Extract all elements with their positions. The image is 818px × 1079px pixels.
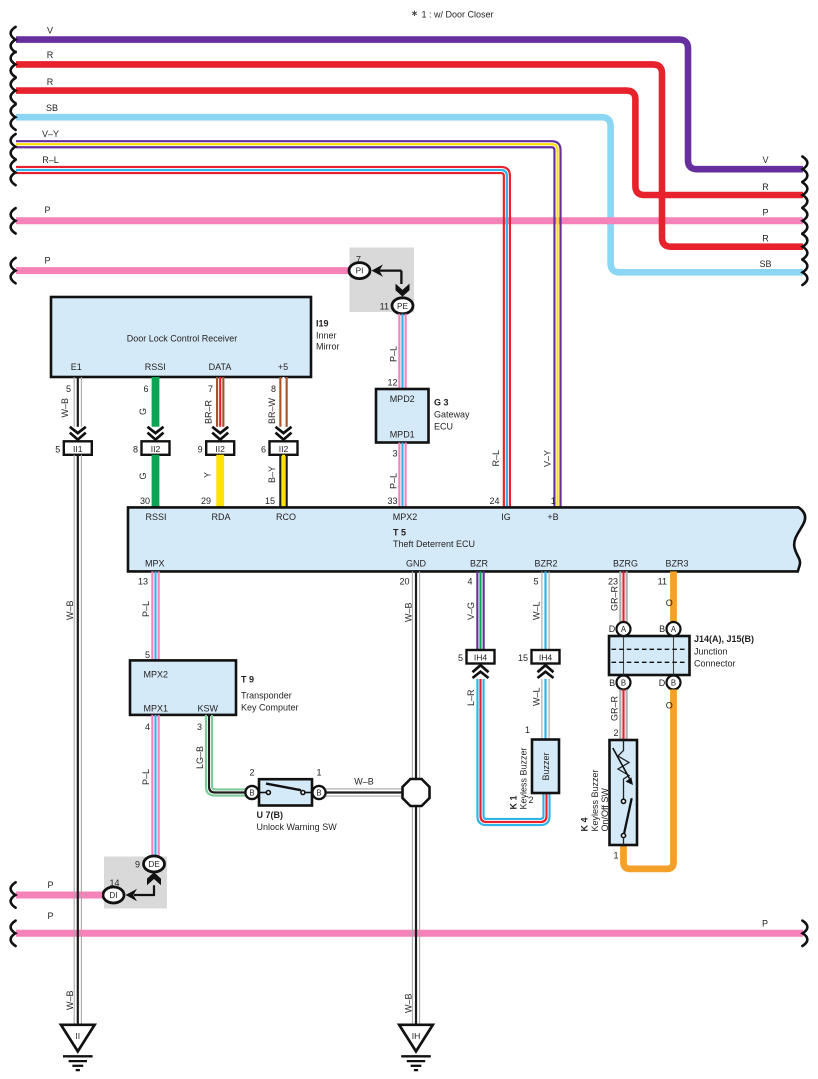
svg-text:5: 5 — [145, 650, 150, 660]
svg-text:11: 11 — [380, 302, 389, 312]
svg-text:II2: II2 — [151, 444, 161, 454]
svg-text:13: 13 — [138, 576, 148, 586]
svg-text:GR–R: GR–R — [609, 585, 619, 611]
wire V (violet) feeder with wire-break braces — [11, 25, 808, 182]
note: footnote w/ Door Closer — [412, 10, 493, 20]
wire P (pink) to connector DI — [11, 880, 102, 908]
svg-text:R: R — [762, 234, 769, 244]
switch K4 Keyless Buzzer On/Off SW — [580, 740, 638, 861]
svg-text:R: R — [47, 50, 54, 60]
wire P (pink) to connector PI — [11, 255, 350, 283]
svg-text:MPX2: MPX2 — [393, 512, 418, 522]
svg-text:P: P — [762, 208, 768, 218]
svg-text:T 9: T 9 — [241, 675, 254, 685]
wire W–L from T5 pin 5 (BZR2) to connector IH4 — [532, 571, 550, 650]
wire R (red) feeder 1 with braces — [11, 50, 808, 259]
svg-text:V: V — [47, 25, 53, 35]
ECU I19 Door Lock Control Receiver (Inner Mirror) — [51, 297, 340, 377]
svg-text:1: 1 — [551, 496, 556, 506]
svg-text:GR–R: GR–R — [609, 695, 619, 721]
junction connector J14(A)/J15(B) — [609, 634, 754, 675]
wire P–L from T9 pin 4 (MPX1) to connector DE — [141, 715, 159, 857]
connector DE (pin 9) — [135, 856, 165, 872]
svg-text:3: 3 — [392, 449, 397, 459]
buzzer K1 Keyless Buzzer — [509, 740, 560, 810]
node: octagon splice on ground wire — [403, 779, 430, 806]
connector arrow out of IH4 (BZR2) — [538, 665, 554, 678]
svg-text:On/Off SW: On/Off SW — [600, 788, 610, 832]
ECU T9 Transponder Key Computer — [130, 660, 299, 715]
svg-text:L–R: L–R — [466, 689, 476, 706]
wire W–B from II1 to ground II — [65, 455, 81, 1024]
svg-text:Door Lock Control Receiver: Door Lock Control Receiver — [127, 334, 238, 344]
svg-text:Keyless Buzzer: Keyless Buzzer — [590, 769, 600, 831]
wire W–B from U7(B) pin 1 to junction node — [326, 776, 402, 796]
svg-text:DATA: DATA — [209, 362, 232, 372]
svg-text:3: 3 — [197, 722, 202, 732]
svg-text:A: A — [671, 625, 677, 634]
connector arrow into II2 (DATA) — [212, 427, 228, 440]
svg-text:V–Y: V–Y — [542, 450, 552, 467]
svg-text:7: 7 — [208, 384, 213, 394]
connector arrow into II2 (+5) — [276, 427, 292, 440]
svg-text:W–B: W–B — [60, 398, 70, 418]
arrow DI to DE — [126, 872, 162, 901]
svg-text:R: R — [762, 182, 769, 192]
svg-text:P–L: P–L — [389, 473, 399, 489]
svg-text:1: 1 — [613, 851, 618, 861]
svg-text:IH4: IH4 — [474, 653, 488, 663]
svg-text:RCO: RCO — [276, 512, 296, 522]
svg-text:+B: +B — [547, 512, 558, 522]
wire P (pink) full-width row with braces — [11, 205, 808, 234]
connector PE (pin 11) — [380, 298, 413, 314]
junction block PI/PE (gray panel) — [350, 248, 415, 313]
wire L–R from IH4 to buzzer K1 pin 2 — [466, 679, 549, 825]
svg-text:II1: II1 — [73, 444, 83, 454]
wire P–L from Gateway ECU pin 3 to T5 pin 33 (MPX2) — [387, 443, 405, 507]
svg-text:IH4: IH4 — [539, 653, 553, 663]
svg-text:V: V — [762, 155, 768, 165]
svg-text:GND: GND — [406, 559, 427, 569]
svg-text:II2: II2 — [215, 444, 225, 454]
svg-text:9: 9 — [135, 860, 140, 870]
svg-text:O: O — [666, 598, 673, 608]
svg-text:W–B: W–B — [65, 990, 75, 1010]
ECU T5 Theft Deterrent ECU — [128, 507, 805, 571]
svg-text:G: G — [138, 408, 148, 415]
connector II2 (pin 8) — [133, 441, 170, 455]
svg-text:+5: +5 — [278, 362, 288, 372]
svg-text:B: B — [621, 678, 626, 687]
svg-text:PE: PE — [397, 302, 408, 311]
svg-text:BR–W: BR–W — [267, 397, 277, 424]
svg-text:Connector: Connector — [694, 659, 736, 669]
svg-text:MPX2: MPX2 — [144, 670, 169, 680]
connector PI (pin 7) — [349, 254, 370, 278]
svg-text:Transponder: Transponder — [241, 691, 292, 701]
svg-text:V–Y: V–Y — [42, 129, 59, 139]
switch U7(B) Unlock Warning SW — [245, 767, 337, 832]
connector DI (pin 14) — [103, 878, 124, 903]
wire V–Y (violet/yellow) to T5 pin +B — [11, 129, 561, 506]
svg-text:Key Computer: Key Computer — [241, 703, 299, 713]
svg-text:BZR: BZR — [470, 559, 489, 569]
svg-text:1: 1 — [525, 725, 530, 735]
svg-text:I19: I19 — [316, 319, 329, 329]
connector IH4 (pin 15) — [518, 650, 560, 664]
svg-text:II2: II2 — [279, 444, 289, 454]
ground IH — [399, 1025, 433, 1070]
wire R–L (red/blue) to T5 pin IG — [11, 155, 510, 507]
svg-text:5: 5 — [533, 576, 538, 586]
wire GR–R from junction B to K4 pin 2 — [609, 690, 626, 741]
svg-text:BZR2: BZR2 — [534, 559, 557, 569]
svg-text:J14(A), J15(B): J14(A), J15(B) — [694, 634, 754, 644]
connector arrow into II1 — [70, 427, 86, 440]
svg-text:Theft Deterrent ECU: Theft Deterrent ECU — [393, 539, 475, 549]
ground II — [61, 1025, 95, 1070]
svg-text:Mirror: Mirror — [316, 342, 340, 352]
junction block DE/DI (gray panel) — [104, 857, 167, 909]
svg-text:PI: PI — [356, 267, 364, 276]
svg-text:SB: SB — [46, 103, 58, 113]
junction pin B (D side) — [659, 676, 681, 690]
svg-text:5: 5 — [55, 444, 60, 454]
svg-text:R: R — [47, 77, 54, 87]
svg-text:ECU: ECU — [434, 422, 453, 432]
svg-text:B: B — [671, 678, 676, 687]
svg-text:G 3: G 3 — [434, 398, 449, 408]
svg-text:II: II — [75, 1031, 80, 1041]
wire LG–B from T9 pin 3 (KSW) to unlock warning switch — [195, 715, 246, 796]
connector arrow into II2 (RSSI) — [148, 427, 164, 440]
svg-text:Buzzer: Buzzer — [541, 752, 551, 780]
svg-text:W–L: W–L — [532, 687, 542, 706]
svg-text:P: P — [47, 911, 53, 921]
wire P–L from T5 pin 13 (MPX) to T9 pin 5 — [138, 571, 159, 660]
svg-text:V–G: V–G — [466, 602, 476, 620]
wire G (green) from I19 RSSI (pin 6) to connector II2 — [138, 377, 156, 427]
svg-text:P: P — [762, 919, 768, 929]
svg-text:9: 9 — [198, 444, 203, 454]
svg-text:29: 29 — [201, 496, 211, 506]
svg-text:G: G — [138, 472, 148, 479]
svg-text:O: O — [666, 701, 673, 711]
svg-text:12: 12 — [387, 378, 397, 388]
svg-text:K 1: K 1 — [509, 795, 519, 809]
wire P (pink) full-width bottom row with braces — [11, 911, 808, 946]
svg-text:B: B — [316, 788, 321, 797]
svg-text:4: 4 — [145, 722, 150, 732]
svg-text:Keyless Buzzer: Keyless Buzzer — [519, 747, 529, 809]
wire Y (yellow) from II2 to T5 pin 29 (RDA) — [201, 455, 220, 507]
svg-text:RDA: RDA — [211, 512, 230, 522]
svg-text:8: 8 — [133, 444, 138, 454]
connector IH4 (pin 5) — [458, 650, 495, 664]
svg-text:6: 6 — [143, 384, 148, 394]
svg-text:MPX: MPX — [145, 559, 165, 569]
connector arrow out of IH4 (BZR) — [473, 665, 489, 678]
svg-text:W–B: W–B — [404, 993, 414, 1013]
wire B–Y from II2 to T5 pin 15 (RCO) — [265, 455, 287, 507]
svg-text:B: B — [659, 624, 665, 634]
svg-text:B: B — [249, 788, 254, 797]
svg-text:E1: E1 — [71, 362, 82, 372]
svg-text:20: 20 — [399, 576, 409, 586]
svg-text:BR–R: BR–R — [204, 399, 214, 424]
svg-text:5: 5 — [458, 653, 463, 663]
svg-text:P: P — [44, 205, 50, 215]
svg-text:11: 11 — [658, 576, 667, 586]
connector II2 (pin 9) — [198, 441, 235, 455]
connector II2 (pin 6) — [261, 441, 298, 455]
svg-text:IH: IH — [412, 1031, 421, 1041]
svg-text:KSW: KSW — [198, 704, 219, 714]
connector II1 (pin 5) — [55, 441, 92, 455]
svg-text:P–L: P–L — [389, 346, 399, 362]
svg-text:1 : w/ Door Closer: 1 : w/ Door Closer — [422, 10, 494, 20]
svg-text:D: D — [659, 678, 666, 688]
svg-text:P: P — [47, 880, 53, 890]
svg-text:8: 8 — [271, 384, 276, 394]
svg-text:BZR3: BZR3 — [665, 559, 688, 569]
svg-text:LG–B: LG–B — [195, 746, 205, 769]
svg-text:2: 2 — [528, 795, 533, 805]
svg-text:2: 2 — [249, 767, 254, 777]
wire O (orange) from T5 pin 11 (BZR3) to junction connector A — [658, 571, 674, 622]
svg-text:24: 24 — [489, 496, 499, 506]
wire BR–W from I19 +5 (pin 8) to connector II2 — [267, 377, 287, 427]
wire GR–R from T5 pin 23 (BZRG) to junction connector A — [608, 571, 627, 622]
svg-text:1: 1 — [316, 767, 321, 777]
svg-text:P–L: P–L — [141, 769, 151, 785]
wire P–L from PE to Gateway ECU pin 12 — [387, 314, 405, 389]
svg-text:K 4: K 4 — [580, 817, 590, 831]
svg-text:R–L: R–L — [491, 450, 501, 467]
svg-text:Inner: Inner — [316, 331, 337, 341]
svg-text:D: D — [609, 624, 616, 634]
junction pin A (D side) — [609, 622, 631, 636]
svg-text:6: 6 — [261, 444, 266, 454]
svg-text:Junction: Junction — [694, 647, 728, 657]
svg-text:P: P — [44, 255, 50, 265]
svg-text:R–L: R–L — [42, 155, 59, 165]
wire V–G from T5 pin 4 (BZR) to connector IH4 — [466, 571, 483, 650]
svg-text:15: 15 — [518, 653, 528, 663]
svg-text:30: 30 — [140, 496, 150, 506]
junction pin B (B side) — [609, 676, 630, 690]
svg-text:MPD2: MPD2 — [390, 394, 415, 404]
ECU G3 Gateway ECU (MPD2/MPD1) — [376, 389, 470, 443]
svg-text:W–B: W–B — [354, 776, 374, 786]
svg-text:SB: SB — [759, 259, 771, 269]
svg-text:23: 23 — [608, 576, 618, 586]
svg-text:DE: DE — [148, 860, 160, 869]
svg-text:W–B: W–B — [404, 602, 414, 622]
svg-text:5: 5 — [66, 384, 71, 394]
svg-text:U 7(B): U 7(B) — [257, 810, 284, 820]
svg-text:15: 15 — [265, 496, 275, 506]
svg-text:MPX1: MPX1 — [144, 704, 169, 714]
svg-text:BZRG: BZRG — [613, 559, 638, 569]
wire W–L from IH4 to buzzer K1 pin 1 — [525, 679, 549, 740]
wire BR–R from I19 DATA (pin 7) to connector II2 — [204, 377, 224, 427]
arrow PI to PE — [372, 264, 410, 296]
svg-text:DI: DI — [109, 891, 117, 900]
svg-text:W–L: W–L — [532, 601, 542, 620]
svg-text:A: A — [621, 625, 627, 634]
svg-text:2: 2 — [613, 728, 618, 738]
wire G (green) from II2 to T5 pin 30 (RSSI) — [138, 455, 156, 507]
svg-text:MPD1: MPD1 — [390, 430, 415, 440]
svg-text:IG: IG — [501, 512, 511, 522]
wire SB (sky blue) feeder with braces — [11, 103, 808, 285]
svg-text:W–B: W–B — [65, 600, 75, 620]
svg-text:T 5: T 5 — [393, 528, 406, 538]
wire R (red) feeder 2 with braces — [11, 77, 808, 208]
wire W–B from T5 pin 20 (GND) to ground IH — [399, 571, 419, 1024]
svg-text:RSSI: RSSI — [145, 512, 166, 522]
svg-text:33: 33 — [387, 496, 397, 506]
svg-text:P–L: P–L — [141, 601, 151, 617]
svg-text:Unlock Warning SW: Unlock Warning SW — [257, 822, 338, 832]
svg-text:B–Y: B–Y — [267, 466, 277, 483]
svg-text:Gateway: Gateway — [434, 410, 470, 420]
svg-text:Y: Y — [203, 472, 213, 478]
svg-text:4: 4 — [467, 576, 472, 586]
junction pin A (B side) — [659, 622, 680, 636]
svg-text:RSSI: RSSI — [145, 362, 166, 372]
wire O (orange) from junction B to K4 pin 1 — [624, 690, 674, 869]
wire W–B from I19 pin E1 (pin 5) to connector II1 — [60, 377, 81, 427]
svg-text:B: B — [609, 678, 615, 688]
